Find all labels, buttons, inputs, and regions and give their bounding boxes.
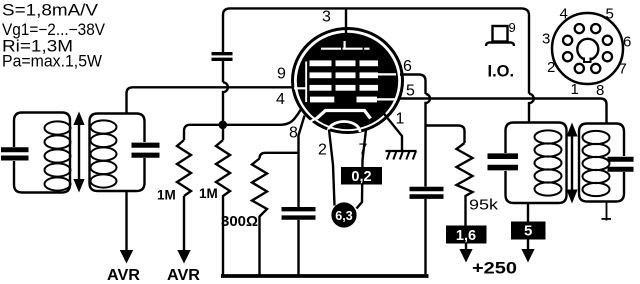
wire L3 bottom to 5 box <box>527 203 529 222</box>
anode line (thin) <box>321 48 370 50</box>
svg-text:9: 9 <box>509 20 516 35</box>
grid row 3 <box>310 85 332 91</box>
coil L2 secondary left <box>90 114 145 192</box>
coil L3 output primary <box>506 123 567 204</box>
grid row 2 <box>310 72 332 78</box>
tube inner electrode disc <box>297 33 398 129</box>
svg-text:1: 1 <box>396 111 405 128</box>
pin9 inner lead <box>294 87 307 89</box>
wire pin 3 <box>345 8 347 35</box>
svg-text:Vg1=−2...−38V: Vg1=−2...−38V <box>2 21 105 39</box>
svg-text:2: 2 <box>547 59 555 76</box>
value box 0,2 <box>341 167 382 185</box>
wire pin 1 <box>383 113 402 151</box>
svg-text:2: 2 <box>318 142 327 159</box>
coil L1 primary left <box>14 113 70 193</box>
wire top anode rail <box>223 8 529 93</box>
svg-text:5: 5 <box>524 223 532 240</box>
svg-text:300Ω: 300Ω <box>221 214 258 230</box>
cathode trapezoid electrode <box>317 111 371 119</box>
anode top lead (white) <box>344 41 346 50</box>
svg-text:4: 4 <box>560 6 568 23</box>
value box 1,6 <box>446 226 487 244</box>
svg-text:1: 1 <box>571 81 579 98</box>
wire pin 5 to output secondary <box>399 99 607 124</box>
wire AVR arrow from R1 <box>183 196 185 251</box>
capacitor C6 output primary <box>488 153 519 159</box>
resistor R3 300ohm <box>252 159 267 277</box>
capacitor C3 left secondary <box>132 143 160 148</box>
wire screen to 95k <box>426 126 465 144</box>
svg-text:1,6: 1,6 <box>456 228 476 244</box>
cathode to pin8 inner lead <box>305 118 317 125</box>
wire hop over pin9 line <box>223 82 228 140</box>
socket center spigot <box>577 39 598 60</box>
capacitor C5 screen bypass <box>410 187 444 192</box>
svg-text:8: 8 <box>289 125 298 142</box>
svg-text:1M: 1M <box>199 186 218 201</box>
socket pin holes <box>563 24 612 73</box>
grid row 1 <box>294 41 396 102</box>
resistor R1 1M <box>177 140 191 196</box>
svg-text:6: 6 <box>623 34 631 51</box>
wire hop right edge over pin5 line <box>529 94 534 123</box>
svg-text:Pa=max.1,5W: Pa=max.1,5W <box>2 53 102 71</box>
wire pin 6 screen <box>400 75 426 95</box>
svg-text:6: 6 <box>403 58 412 75</box>
svg-text:5: 5 <box>606 6 614 23</box>
tuning arrow right transformer <box>571 134 573 192</box>
arrow to +250 <box>465 244 467 251</box>
svg-text:6,3: 6,3 <box>335 209 352 223</box>
tube base symbol <box>493 26 508 42</box>
wire pin 7 heater <box>357 130 367 209</box>
wire L2 top to pin9 line <box>127 87 295 113</box>
capacitor grid coupling <box>212 52 233 55</box>
svg-text:7: 7 <box>619 61 627 78</box>
arrow below 5 box <box>527 240 529 251</box>
resistor R4 95k <box>457 143 473 226</box>
wire L4 bottom stub <box>606 202 608 221</box>
svg-text:I.O.: I.O. <box>488 63 515 81</box>
capacitor C4 cathode bypass <box>282 207 316 211</box>
capacitor C2 left tank <box>1 147 29 152</box>
svg-text:7: 7 <box>359 142 368 159</box>
svg-text:0,2: 0,2 <box>351 169 371 185</box>
svg-text:+250: +250 <box>472 260 517 278</box>
wire hop pin6 over pin5 <box>426 94 431 187</box>
svg-text:S=1,8mA/V: S=1,8mA/V <box>2 2 98 20</box>
svg-text:95k: 95k <box>469 197 499 214</box>
socket outline <box>552 13 623 84</box>
wire pin8 cathode down <box>299 116 305 208</box>
capacitor C7 output secondary <box>608 157 634 162</box>
wire grid cap to junction <box>222 61 224 82</box>
svg-text:AVR: AVR <box>167 267 200 284</box>
svg-text:4: 4 <box>276 91 285 108</box>
tuning arrow left transformer <box>78 122 80 182</box>
wire pin 2 heater <box>329 130 335 206</box>
tube envelope U1 <box>293 29 403 133</box>
svg-text:1M: 1M <box>157 188 176 203</box>
svg-text:8: 8 <box>596 82 604 99</box>
svg-text:9: 9 <box>277 66 286 83</box>
resistor R2 1M <box>216 140 230 276</box>
value box 5 <box>511 222 546 240</box>
coil L4 output secondary <box>579 124 624 202</box>
wire L2 bottom AVR arrow <box>125 191 127 251</box>
svg-text:AVR: AVR <box>107 267 140 284</box>
svg-text:5: 5 <box>406 83 415 100</box>
heater arc <box>328 122 360 132</box>
pin6 inner lead <box>377 73 396 75</box>
grid left connector <box>305 62 307 103</box>
node junction dot <box>219 121 228 130</box>
grid row 4 <box>310 97 334 103</box>
svg-text:3: 3 <box>322 9 331 26</box>
wire bottom ground rail <box>221 274 429 278</box>
wire junction to pin 4 <box>184 110 301 141</box>
pin5 inner lead <box>377 98 396 100</box>
wire 300ohm to pin8 <box>260 153 299 159</box>
svg-text:3: 3 <box>542 31 550 48</box>
ground chassis symbol <box>386 150 417 152</box>
heater voltage circle 6,3 <box>331 202 356 227</box>
